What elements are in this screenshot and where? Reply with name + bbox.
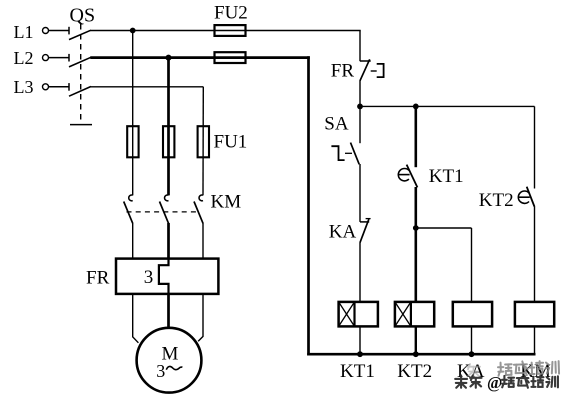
svg-text:FU1: FU1 bbox=[214, 132, 248, 153]
svg-text:FU2: FU2 bbox=[214, 3, 248, 24]
svg-text:L3: L3 bbox=[14, 77, 34, 97]
svg-text:KT1: KT1 bbox=[429, 166, 464, 187]
svg-text:QS: QS bbox=[70, 5, 96, 27]
svg-text:KT2: KT2 bbox=[479, 190, 514, 211]
svg-text:SA: SA bbox=[324, 114, 349, 135]
svg-text:@: @ bbox=[487, 373, 502, 392]
svg-text:KT1: KT1 bbox=[340, 361, 375, 382]
svg-text:KT2: KT2 bbox=[397, 361, 432, 382]
svg-text:KM: KM bbox=[211, 192, 242, 213]
svg-text:FR: FR bbox=[86, 267, 110, 288]
svg-text:KA: KA bbox=[329, 222, 357, 243]
svg-text:L2: L2 bbox=[14, 48, 34, 68]
svg-text:3: 3 bbox=[144, 267, 154, 288]
svg-text:3: 3 bbox=[156, 361, 165, 381]
svg-text:FR: FR bbox=[331, 61, 355, 82]
svg-text:L1: L1 bbox=[14, 22, 34, 42]
